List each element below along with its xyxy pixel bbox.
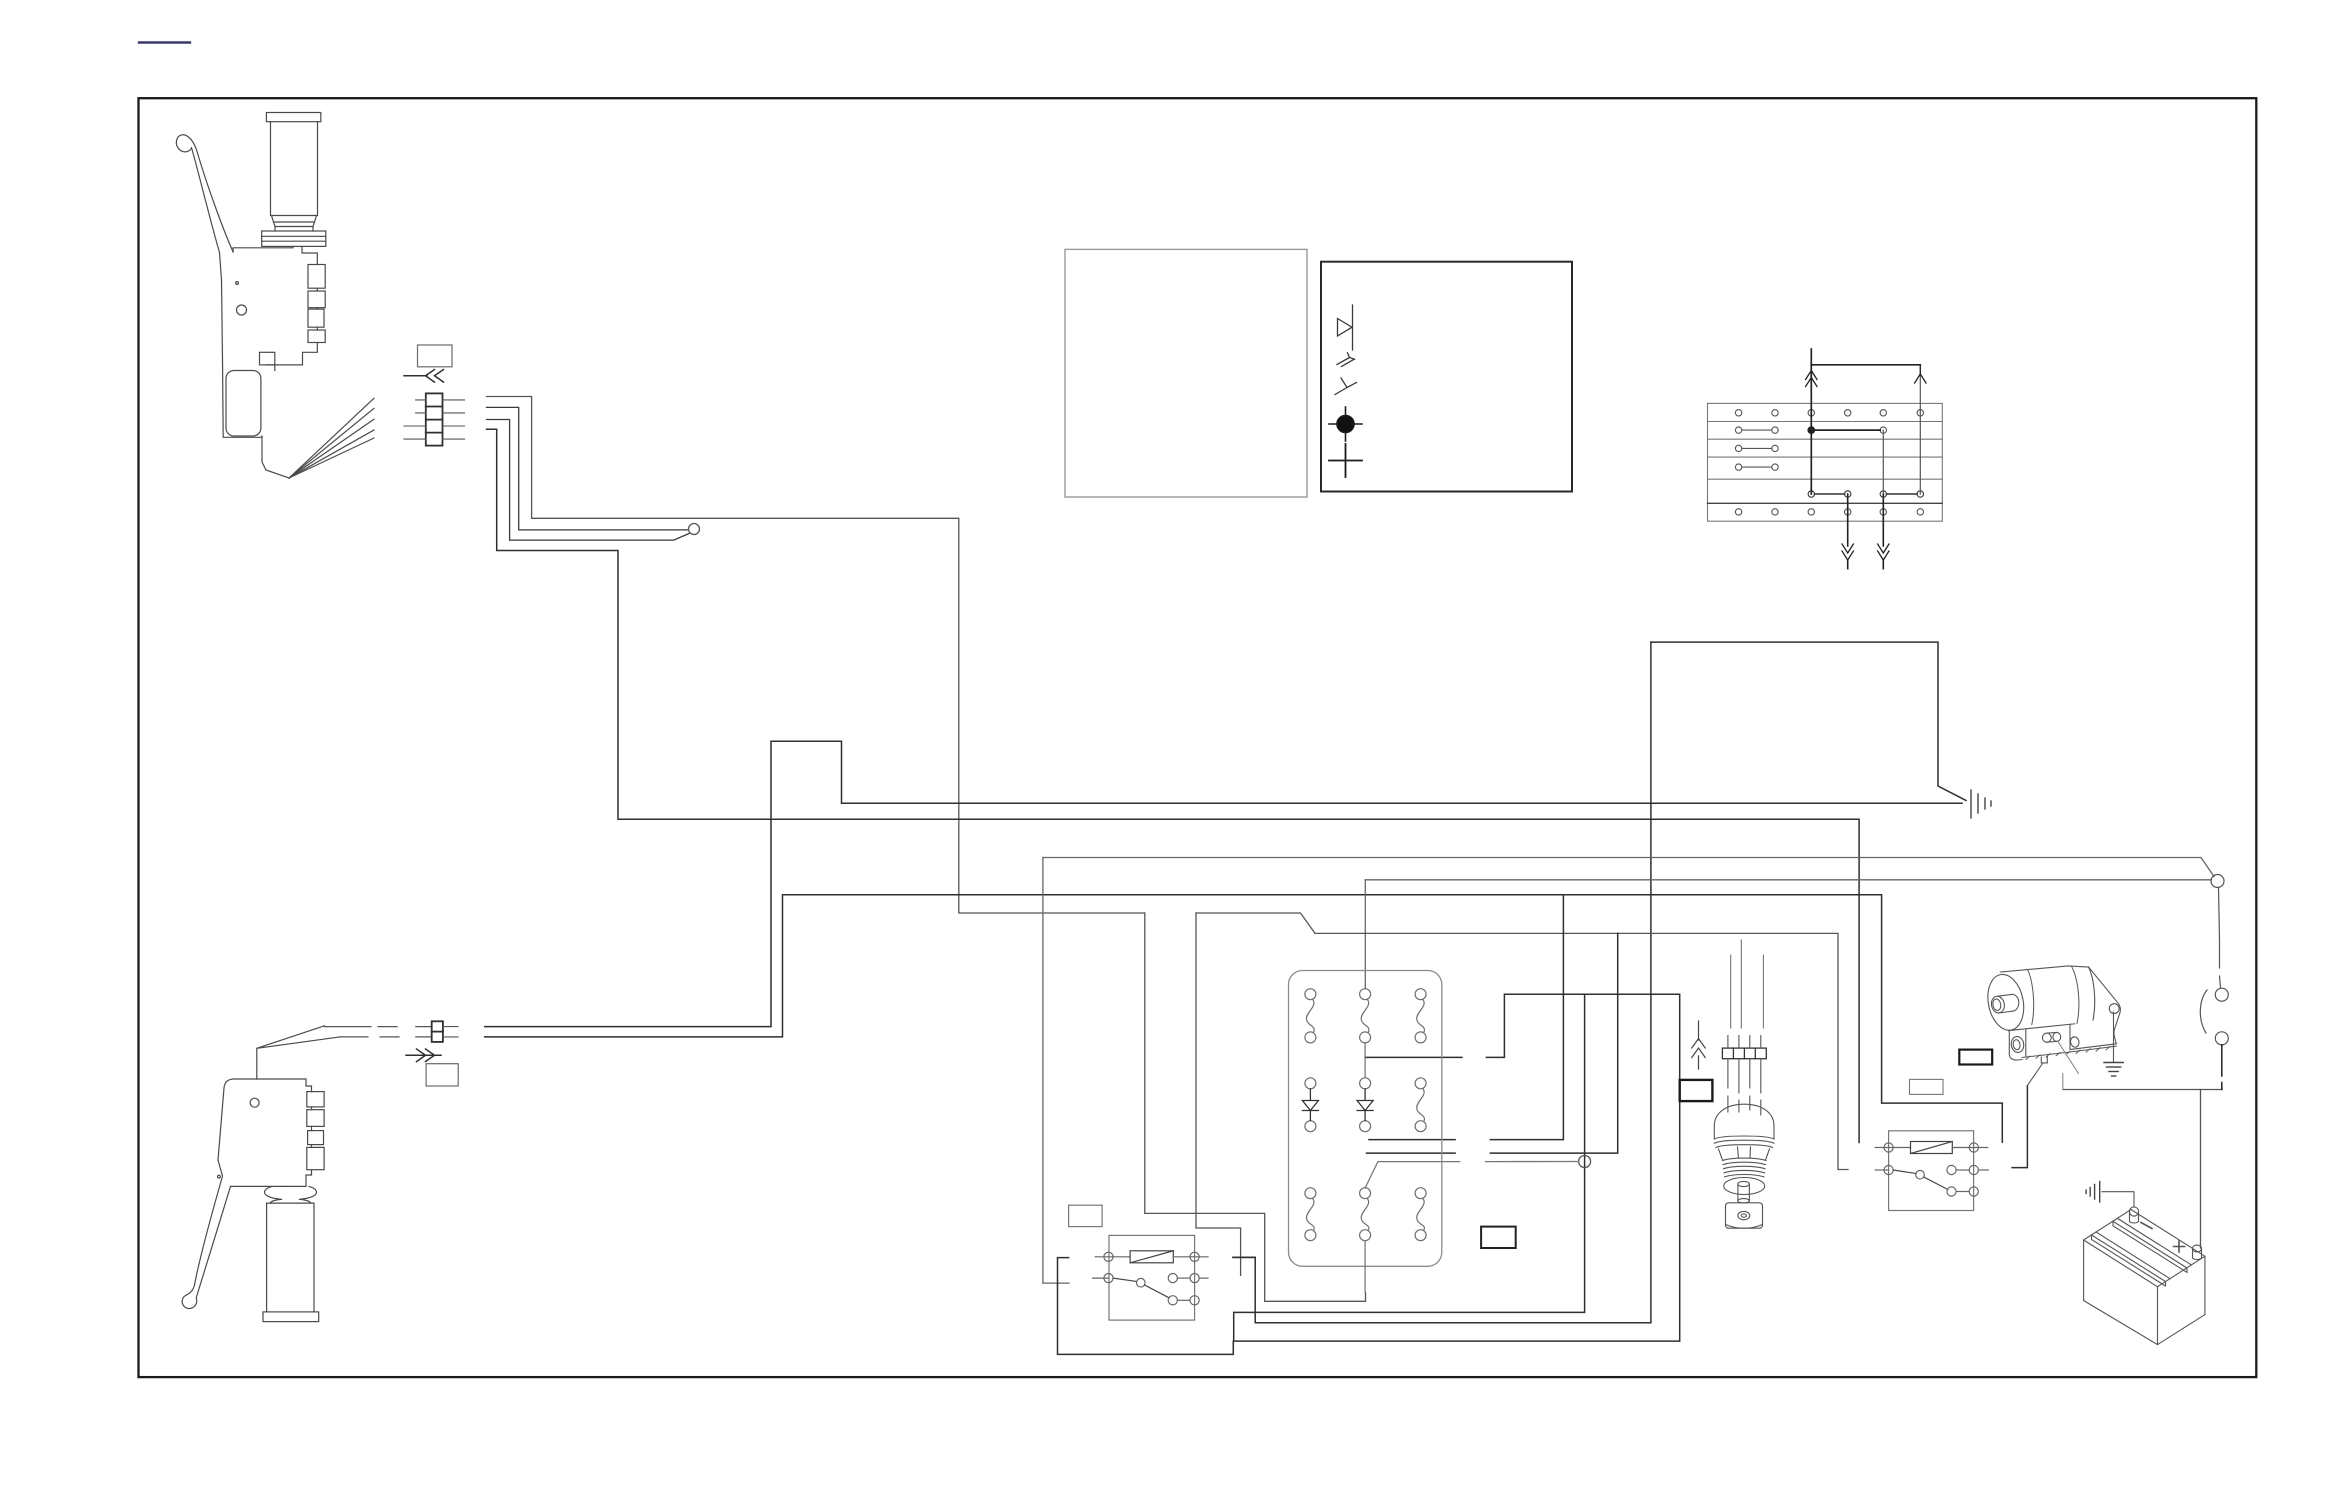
fuse group1 col2 bbox=[1360, 989, 1371, 1000]
connector CN1 housing (4 cells) bbox=[426, 393, 443, 445]
battery body verticals bbox=[2084, 1240, 2205, 1345]
diode D1 col1 group2 bbox=[1305, 1078, 1316, 1089]
legend symbol bullet terminal bbox=[1335, 378, 1357, 395]
col2 link group1-group2 bbox=[1364, 1043, 1366, 1078]
main switch row5 contacts bbox=[1808, 491, 1923, 497]
remote control unit 2 cylinder body bbox=[267, 1203, 314, 1312]
remote control unit 2 pivot hole bbox=[250, 1098, 259, 1107]
remote control unit 1 name plate bbox=[226, 371, 261, 437]
fuse group3 col2 bbox=[1360, 1188, 1371, 1199]
connector CN2 housing (2 cells) bbox=[432, 1021, 443, 1042]
legend symbol diode bbox=[1338, 305, 1353, 350]
remote control unit 1 side blocks bbox=[308, 265, 325, 289]
fuse and diode box outline bbox=[1289, 971, 1442, 1267]
fuse group3 col3 bbox=[1415, 1188, 1426, 1199]
legend box left bbox=[1065, 249, 1307, 497]
starter motor label box L7 bbox=[1910, 1079, 1944, 1094]
starter relay box bbox=[1889, 1131, 1974, 1211]
sensor label box L3 bbox=[1680, 1080, 1713, 1101]
remote control unit 2 collar bbox=[265, 1186, 317, 1203]
relay 1 box bbox=[1109, 1235, 1195, 1320]
main switch row3 contacts bbox=[1735, 445, 1778, 451]
legend symbol frame ground cross bbox=[1329, 444, 1362, 477]
relay1 feed lower bracket bbox=[1058, 1258, 1234, 1355]
relay 1 right bracket bbox=[1233, 1256, 1255, 1258]
remote control unit 2 side blocks bbox=[307, 1092, 324, 1107]
border frame bbox=[139, 98, 2257, 1377]
harness wire dashes upper bbox=[324, 1026, 431, 1028]
sensor threads bbox=[1723, 1158, 1767, 1177]
starter motor label box L6 bbox=[1959, 1050, 1992, 1065]
fuse group1 col1 bbox=[1305, 989, 1316, 1000]
starter ground wire bbox=[2113, 1012, 2115, 1062]
thermo sensor dome bbox=[1714, 1104, 1774, 1139]
sensor connector leads above bbox=[1728, 1036, 1761, 1049]
battery plus terminal bbox=[2193, 1249, 2202, 1260]
bracket lower edge with hatch bbox=[2070, 1044, 2116, 1050]
header rule bbox=[139, 41, 190, 43]
chassis ground symbol G1 bbox=[1971, 790, 1991, 818]
long vertical to relay bracket bbox=[1233, 642, 1651, 1323]
sensor terminal plate bbox=[1726, 1203, 1763, 1228]
disconnect arrow down col5 bbox=[1878, 544, 1889, 560]
wire RC2 upper pair run to ground rail bbox=[485, 741, 1962, 1026]
main switch row2 contacts bbox=[1735, 427, 1886, 433]
wire battery vertical with jump hook bbox=[1043, 858, 1069, 1284]
wire C to ring terminal bbox=[487, 420, 690, 541]
branch v1 bbox=[1369, 895, 1563, 1140]
stop switch upper contact bbox=[2215, 988, 2228, 1001]
battery negative ground wire bbox=[2102, 1192, 2134, 1207]
battery top ridges bbox=[2092, 1218, 2192, 1281]
wire A vertical drop left bbox=[1145, 913, 1366, 1301]
starter relay blade bbox=[1924, 1177, 1948, 1190]
remote control unit 1 collar bbox=[262, 231, 326, 246]
remote control unit 2 base plate bbox=[263, 1312, 319, 1322]
starter relay switch row bbox=[1875, 1169, 1888, 1171]
stop switch to relay wire bbox=[2063, 1089, 2222, 1091]
wire A main harness from CN1 bbox=[487, 397, 1145, 914]
label box L5 bbox=[1481, 1227, 1516, 1248]
starter lead line 2 bbox=[2058, 1042, 2078, 1090]
remote control unit 1 pivot hole bbox=[237, 305, 247, 315]
remote control unit 1 harness tail bbox=[262, 437, 289, 478]
main switch feed wire col6 bbox=[1919, 365, 1921, 494]
main switch feed wire col3 bbox=[1811, 349, 1920, 494]
earth ground symbol at starter bbox=[2104, 1063, 2123, 1077]
sensor rings bbox=[1714, 1136, 1774, 1148]
remote control unit 2 lever bbox=[182, 1160, 230, 1309]
starter B terminal cylinder bbox=[2047, 1032, 2057, 1042]
earth ground symbol at battery bbox=[2086, 1182, 2100, 1203]
ring terminal bbox=[689, 524, 700, 535]
sensor hex bbox=[1719, 1147, 1770, 1160]
connector CN1 arrow symbol << bbox=[404, 370, 444, 383]
main switch output col5 down bbox=[1882, 494, 1884, 569]
remote control unit 1 harness fan wires bbox=[289, 398, 374, 478]
main switch row4 contacts bbox=[1735, 464, 1778, 470]
connector CN2 arrow symbol >> bbox=[406, 1049, 441, 1062]
connector CN1 pin stubs left bbox=[404, 400, 426, 439]
starter terminal pin below bbox=[2041, 1057, 2047, 1063]
stop switch lower contact bbox=[2215, 1032, 2228, 1045]
legend symbol connector arrow bbox=[1337, 353, 1355, 367]
diode D2 col2 group2 bbox=[1360, 1078, 1371, 1089]
wire via chamfer to starter relay bbox=[1315, 933, 1848, 1169]
remote control unit 2 small dot bbox=[218, 1175, 221, 1178]
starter motor end cap bbox=[1983, 971, 2028, 1033]
bracket hole bbox=[2109, 1004, 2119, 1014]
sensor center pin bbox=[1738, 1184, 1750, 1201]
sensor connector bar bbox=[1722, 1048, 1766, 1059]
fuse group1 col3 bbox=[1415, 989, 1426, 1000]
remote control unit 1 small dot bbox=[236, 282, 239, 285]
stop switch feed drop bbox=[2219, 887, 2221, 988]
disconnect arrow up col6 bbox=[1915, 365, 1926, 383]
starter relay coil row bbox=[1875, 1147, 1910, 1149]
remote control unit 1 body outline bbox=[220, 246, 318, 437]
fuse box feed vertical bbox=[1364, 880, 1366, 989]
sensor connector leads below bbox=[1728, 1059, 1761, 1093]
starter motor body bbox=[2000, 966, 2088, 972]
stop switch junction ring bbox=[2211, 875, 2224, 888]
wire D long run to starter relay bbox=[487, 429, 1860, 1142]
relay 1 blade bbox=[1145, 1285, 1169, 1298]
main switch contact table frame bbox=[1708, 403, 1943, 521]
connector CN1 label box bbox=[418, 345, 453, 367]
fuse group3 col1 bbox=[1305, 1188, 1316, 1199]
relay 1 coil row bbox=[1095, 1256, 1130, 1258]
remote control unit 2 body outline bbox=[218, 1079, 312, 1186]
gray wire into fuse box bbox=[1365, 1162, 1579, 1189]
starter right rear bolt bbox=[2070, 1036, 2080, 1048]
remote control unit 1 cylinder neck bbox=[272, 216, 317, 232]
battery top face bbox=[2084, 1210, 2205, 1287]
relay 1 switch row bbox=[1093, 1277, 1109, 1279]
connector CN2 label box bbox=[426, 1064, 458, 1086]
wire to battery switch lower bbox=[1365, 879, 2211, 881]
wire to battery switch upper bbox=[1043, 858, 2214, 877]
legend box right bbox=[1321, 262, 1572, 492]
remote control unit 2 bottom edge bbox=[231, 1185, 284, 1187]
wire B to ring terminal bbox=[487, 407, 688, 530]
fuse feed loop bbox=[1234, 994, 1680, 1341]
stop switch blade arc bbox=[2200, 990, 2207, 1033]
junction ring on v4 bbox=[1579, 1156, 1591, 1168]
wire A vertical drop right bbox=[1196, 913, 1241, 1275]
main switch output col4 down bbox=[1847, 494, 1849, 569]
main switch jumper col5 bbox=[1882, 430, 1884, 494]
col2 outlet below group3 bbox=[1364, 1241, 1366, 1293]
battery minus terminal bbox=[2130, 1213, 2139, 1224]
remote control unit 2 harness wires bbox=[257, 1026, 340, 1079]
wire RC2 lower pair run bbox=[485, 895, 2003, 1142]
harness wire dashes lower bbox=[340, 1036, 432, 1038]
engine harness arrow up bbox=[1692, 1021, 1705, 1069]
relay 1 label box L4 bbox=[1069, 1205, 1103, 1226]
disconnect arrow down col4 bbox=[1842, 544, 1853, 560]
battery plus wire bbox=[2200, 1090, 2202, 1249]
main switch row1 terminals bbox=[1735, 410, 1923, 416]
starter motor shaft boss bbox=[1998, 994, 2013, 1013]
starter motor body seams bbox=[2028, 970, 2034, 1025]
battery minus symbol bbox=[2141, 1223, 2152, 1229]
connector CN1 pin stubs right bbox=[443, 400, 465, 439]
sensor collar ellipse bbox=[1724, 1178, 1765, 1195]
branch v2 bbox=[1367, 933, 1618, 1153]
starter base foot hole bbox=[2010, 1036, 2025, 1054]
legend symbol splice dot bbox=[1329, 407, 1362, 441]
main switch row6 terminals bbox=[1735, 509, 1923, 515]
remote control unit 1 lever bbox=[176, 135, 233, 253]
starter bracket plate bbox=[2089, 967, 2121, 1044]
remote control unit 1 cylinder body bbox=[271, 122, 318, 216]
starter base block bbox=[2009, 1024, 2070, 1060]
battery plus symbol bbox=[2174, 1241, 2185, 1252]
battery ridge side lines bbox=[2092, 1221, 2188, 1286]
relay2 feed hook bbox=[2012, 1086, 2027, 1168]
remote control unit 1 cylinder cap bbox=[266, 113, 320, 122]
wire A continuation to fuse box bbox=[1196, 913, 1315, 933]
disconnect arrow up col3 bbox=[1806, 371, 1817, 387]
connector CN2 pin stubs right bbox=[443, 1027, 458, 1037]
fuse group2 col3 bbox=[1415, 1078, 1426, 1089]
starter lead line 1 bbox=[2028, 1064, 2043, 1086]
remote control unit 1 cable boss bbox=[260, 352, 275, 365]
battery bottom edges bbox=[2084, 1301, 2205, 1345]
ground rail loop bbox=[1651, 642, 1966, 800]
stop switch lower lead bbox=[2221, 1045, 2223, 1090]
starter motor right end bbox=[2089, 967, 2095, 1020]
